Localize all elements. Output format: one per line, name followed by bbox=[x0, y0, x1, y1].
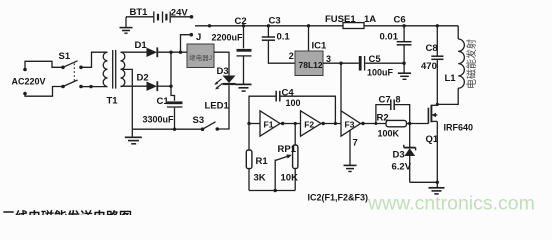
svg-text:R1: R1 bbox=[256, 156, 269, 167]
wire rectifier node down to C1 bbox=[171, 52, 175, 101]
svg-text:C1: C1 bbox=[157, 96, 170, 107]
svg-text:D3: D3 bbox=[217, 66, 229, 77]
svg-text:C6: C6 bbox=[394, 15, 406, 26]
svg-text:D1: D1 bbox=[135, 40, 148, 51]
svg-text:J: J bbox=[196, 32, 201, 43]
svg-text:7: 7 bbox=[353, 138, 358, 149]
svg-text:C5: C5 bbox=[369, 54, 382, 65]
node C7 left junction bbox=[374, 122, 377, 125]
svg-text:3: 3 bbox=[326, 54, 331, 64]
switch S3 bbox=[201, 122, 219, 131]
svg-text:Q1: Q1 bbox=[426, 134, 439, 145]
LED D3 bbox=[214, 76, 235, 90]
node wiper bottom junction bbox=[274, 189, 277, 192]
diode D2 bbox=[147, 81, 158, 91]
svg-text:100uF: 100uF bbox=[367, 67, 394, 77]
svg-text:www.cntronics.com: www.cntronics.com bbox=[367, 193, 535, 215]
svg-text:100K: 100K bbox=[378, 129, 400, 139]
wire S3 to LED line bbox=[217, 85, 229, 129]
node AC top terminal bbox=[23, 68, 27, 72]
wire C1 to ground rail bbox=[174, 108, 176, 130]
ground at F3 pin7 bbox=[344, 130, 357, 171]
wire top rail left segment bbox=[195, 25, 343, 27]
wire S1 to T1 primary top bbox=[81, 52, 108, 67]
wire D2 cathode to junction bbox=[158, 85, 171, 87]
wire zener to mosfet source rail bbox=[410, 181, 438, 183]
wire IC1 pin3 output bbox=[323, 62, 359, 64]
svg-text:电磁能发射: 电磁能发射 bbox=[465, 39, 478, 89]
svg-text:C7: C7 bbox=[379, 95, 391, 106]
ground at C2 bbox=[236, 84, 252, 91]
ground at BT1 bbox=[120, 17, 133, 33]
wire F1 out to F2 bbox=[280, 123, 301, 125]
node C4 junction bbox=[334, 122, 337, 125]
capacitor C7 bbox=[376, 99, 410, 123]
ground bottom right bbox=[429, 182, 445, 194]
node junction D2 bbox=[169, 85, 172, 88]
switch S1 bbox=[61, 61, 83, 88]
wire secondary top to D1 bbox=[121, 51, 147, 53]
svg-text:三线电磁能发送电路图: 三线电磁能发送电路图 bbox=[2, 210, 132, 216]
op-amp F1 bbox=[260, 111, 280, 136]
wire F1 input bbox=[249, 123, 260, 125]
svg-text:3K: 3K bbox=[254, 172, 266, 183]
node F3 output bbox=[361, 122, 364, 125]
relay coil box J bbox=[187, 44, 214, 68]
svg-text:1A: 1A bbox=[364, 14, 376, 25]
node C8 rail junction bbox=[436, 24, 439, 27]
svg-text:S3: S3 bbox=[193, 115, 205, 126]
wire F2 out to F3 bbox=[321, 123, 341, 125]
wire bottom ground rail bbox=[132, 128, 202, 130]
node junction J branch bbox=[179, 51, 182, 54]
svg-text:78L12: 78L12 bbox=[299, 60, 323, 70]
svg-text:IC1: IC1 bbox=[312, 41, 328, 52]
wire F3 out to R2 bbox=[361, 123, 387, 125]
capacitor C2 bbox=[237, 26, 253, 84]
wire J contact branch bbox=[181, 35, 192, 53]
svg-text:D2: D2 bbox=[137, 73, 149, 84]
wire secondary bottom to D2 bbox=[121, 85, 147, 87]
node C5/C6 junction bbox=[402, 62, 405, 65]
svg-text:C4: C4 bbox=[282, 88, 295, 99]
wire 12V supply drop to F3 bbox=[340, 63, 342, 111]
svg-text:F2: F2 bbox=[304, 119, 314, 129]
transformer T1 secondary winding bbox=[121, 52, 125, 86]
wire secondary center tap bbox=[121, 69, 133, 129]
diode D1 bbox=[147, 47, 158, 57]
svg-text:BT1: BT1 bbox=[130, 7, 149, 18]
node dot on primary bottom lead bbox=[89, 85, 92, 88]
node rail dot A bbox=[208, 24, 211, 27]
svg-text:FUSE1: FUSE1 bbox=[325, 14, 356, 25]
node AC bottom terminal bbox=[23, 92, 27, 96]
svg-text:470: 470 bbox=[421, 61, 437, 72]
svg-text:S1: S1 bbox=[59, 51, 71, 62]
svg-text:R2: R2 bbox=[377, 113, 389, 124]
svg-text:AC220V: AC220V bbox=[12, 76, 46, 86]
node RP1 top junction bbox=[294, 122, 297, 125]
op-amp F2 bbox=[301, 111, 322, 136]
node C1 bottom junction bbox=[173, 128, 176, 131]
battery BT1 bbox=[126, 11, 192, 22]
node F1 input junction bbox=[247, 122, 250, 125]
capacitor C1 bbox=[167, 92, 183, 107]
svg-text:2: 2 bbox=[289, 51, 294, 61]
node F2 output bbox=[322, 122, 325, 125]
svg-text:IC2(F1,F2&F3): IC2(F1,F2&F3) bbox=[308, 193, 369, 203]
capacitor C5 bbox=[354, 54, 404, 71]
potentiometer RP1 bbox=[275, 124, 298, 191]
node C2 rail junction bbox=[242, 24, 245, 27]
ground at C5/C6 bbox=[398, 63, 411, 79]
op-amp F3 bbox=[341, 111, 361, 136]
node battery terminal dot bbox=[190, 15, 194, 19]
resistor R2 bbox=[386, 120, 429, 126]
svg-text:T1: T1 bbox=[107, 95, 119, 106]
svg-text:8: 8 bbox=[396, 95, 401, 105]
svg-text:3300uF: 3300uF bbox=[143, 114, 175, 124]
svg-text:0.1: 0.1 bbox=[277, 32, 291, 43]
regulator IC1 78L12 bbox=[295, 26, 323, 76]
zener diode D3 6.2V bbox=[404, 124, 416, 183]
node drain junction bbox=[436, 103, 439, 106]
transformer T1 primary winding bbox=[103, 52, 107, 86]
fuse FUSE1 bbox=[343, 23, 364, 29]
svg-text:C8: C8 bbox=[426, 43, 438, 54]
svg-text:C2: C2 bbox=[235, 16, 247, 27]
node R2 right junction bbox=[408, 122, 411, 125]
svg-text:0.01: 0.01 bbox=[380, 32, 399, 43]
node J terminal dot bbox=[190, 33, 194, 37]
node C3 rail junction bbox=[267, 24, 270, 27]
wire D1 cathode to relay bbox=[158, 51, 187, 53]
node C6 rail junction bbox=[402, 24, 405, 27]
svg-text:IRF640: IRF640 bbox=[444, 123, 474, 133]
resistor R1 bbox=[246, 124, 252, 191]
capacitor C3 bbox=[262, 26, 295, 63]
node F1 output bbox=[281, 122, 284, 125]
node junction D1/C1 bbox=[169, 51, 172, 54]
svg-text:6.2V: 6.2V bbox=[392, 162, 412, 173]
capacitor C8 bbox=[431, 26, 443, 106]
svg-text:C3: C3 bbox=[269, 16, 281, 27]
svg-text:F3: F3 bbox=[345, 119, 355, 129]
capacitor C4 feedback bbox=[249, 91, 335, 124]
svg-text:2200uF: 2200uF bbox=[212, 33, 244, 43]
wire relay to LED branch bbox=[214, 52, 229, 75]
svg-text:RP1: RP1 bbox=[278, 144, 297, 155]
transistor Q1 IRF640 bbox=[428, 105, 437, 183]
wire AC top lead bbox=[25, 61, 62, 69]
capacitor C6 bbox=[397, 26, 412, 63]
wire AC bottom lead bbox=[25, 87, 62, 97]
wire S1 to T1 primary bottom bbox=[81, 86, 108, 88]
svg-text:LED1: LED1 bbox=[205, 101, 230, 112]
svg-text:D3: D3 bbox=[393, 150, 405, 161]
svg-text:继电器J: 继电器J bbox=[189, 53, 212, 62]
node IC1 rail junction bbox=[307, 24, 310, 27]
svg-text:F1: F1 bbox=[264, 119, 274, 129]
svg-text:L1: L1 bbox=[445, 73, 457, 84]
svg-text:100: 100 bbox=[286, 98, 301, 108]
svg-text:10K: 10K bbox=[281, 172, 299, 183]
svg-text:24V: 24V bbox=[171, 8, 189, 19]
node 12V junction bbox=[339, 62, 342, 65]
ground left bbox=[125, 129, 142, 144]
node source ground junction bbox=[436, 181, 439, 184]
transformer T1 core bbox=[113, 50, 116, 89]
wire top rail right segment bbox=[364, 25, 458, 27]
inductor L1 bbox=[437, 26, 464, 105]
wire feedback bottom rail bbox=[249, 190, 295, 192]
